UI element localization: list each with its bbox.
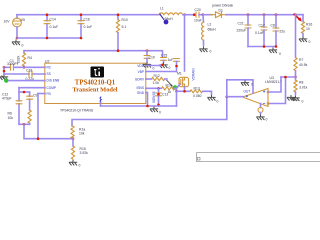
- svg-text:FB: FB: [47, 92, 51, 96]
- node: comp bottom: [23, 123, 26, 126]
- svg-text:C9: C9: [33, 94, 37, 98]
- capacitor C15: [161, 58, 167, 63]
- svg-text:TPS40210-QI TRANS: TPS40210-QI TRANS: [60, 109, 94, 113]
- svg-text:0: 0: [79, 164, 81, 168]
- voltage source V5: [13, 18, 22, 38]
- diode D1: [211, 12, 249, 18]
- node: M1 source: [183, 90, 186, 93]
- wire: comp left rail: [18, 88, 20, 125]
- ground under L2: [199, 47, 207, 53]
- svg-text:R4: R4: [28, 56, 32, 60]
- svg-text:1.0k: 1.0k: [153, 81, 160, 85]
- wire: DIS row: [9, 80, 45, 82]
- wire: Vout sense rail: [72, 97, 227, 126]
- node: V5 bottom junction: [16, 37, 19, 40]
- svg-text:0: 0: [159, 111, 161, 115]
- window frame corner bottom right: [197, 153, 320, 163]
- wire: comp mid rail: [29, 92, 31, 110]
- transistor M1: [179, 77, 189, 86]
- svg-text:V5: V5: [21, 18, 25, 22]
- wire: op-amp inverting feedback: [269, 77, 281, 92]
- ground at caps tie: [269, 48, 277, 54]
- resistor R10: [116, 15, 119, 50]
- svg-text:40.9k: 40.9k: [299, 63, 308, 67]
- node: feedback corner: [284, 76, 287, 79]
- svg-text:GDRV: GDRV: [135, 77, 145, 81]
- svg-text:3.92k: 3.92k: [80, 151, 89, 155]
- svg-text:DIS ENB: DIS ENB: [47, 79, 60, 83]
- capacitor C19: [144, 51, 150, 62]
- svg-text:0: 0: [251, 83, 253, 87]
- node: C17 top: [263, 13, 266, 16]
- capacitor C12 (series on left rail): [16, 101, 22, 104]
- node: VDD row corner: [161, 64, 164, 67]
- wire: left rail down to SS row: [3, 67, 5, 74]
- wire: source row: [177, 90, 191, 92]
- capacitor VBP C10: [174, 59, 180, 72]
- resistor R1a: [71, 126, 74, 139]
- wire: macro pin lead: [100, 103, 102, 106]
- ground at left rail: [0, 75, 8, 81]
- ground under V5: [12, 40, 20, 46]
- svg-text:10k: 10k: [8, 116, 14, 120]
- node: op-amp input: [226, 95, 229, 98]
- svg-text:VBP: VBP: [138, 70, 144, 74]
- wire: output caps bottom tie: [248, 46, 276, 48]
- resistor R7: [294, 15, 297, 77]
- wire: top rail left section: [17, 14, 159, 16]
- node: C13 bottom: [157, 104, 160, 107]
- capacitor C17: [261, 15, 267, 47]
- svg-text:5.1: 5.1: [122, 25, 127, 29]
- wire: rail C20 to D1: [203, 14, 212, 16]
- wire: M1 source down: [184, 87, 186, 92]
- svg-text:C17: C17: [259, 24, 265, 28]
- capacitor C16: [78, 15, 84, 38]
- svg-text:220uF: 220uF: [237, 29, 247, 33]
- ground under C19: [143, 62, 151, 68]
- node: R4 bottom on RC row: [23, 66, 26, 69]
- svg-text:ISNS: ISNS: [137, 86, 144, 90]
- svg-text:COMP: COMP: [47, 86, 57, 90]
- wire: comp to FB rail: [24, 124, 73, 138]
- node: C20 right / L2 top: [202, 13, 205, 16]
- svg-text:U3: U3: [270, 76, 274, 80]
- svg-text:C15: C15: [161, 54, 167, 58]
- red current arrow: [294, 14, 302, 22]
- wire: rail corner to load: [296, 15, 304, 22]
- node: Vout at R7: [294, 13, 297, 16]
- node: left rail junction: [3, 70, 6, 73]
- capacitor C21: [245, 15, 251, 47]
- node: C14 top: [46, 13, 49, 16]
- svg-text:0.060: 0.060: [193, 94, 202, 98]
- resistor R8: [294, 77, 297, 95]
- svg-text:SS: SS: [47, 72, 51, 76]
- svg-text:0: 0: [279, 52, 281, 56]
- svg-text:C21: C21: [238, 21, 244, 25]
- node: divider mid: [72, 137, 75, 140]
- wire: GND pin row: [146, 93, 148, 107]
- svg-text:0: 0: [217, 100, 219, 104]
- MOSFET M1 drain wire: [184, 15, 186, 71]
- resistor R12: [152, 77, 168, 80]
- resistor R15: [71, 139, 74, 160]
- wire: gate stub: [177, 84, 180, 88]
- node: sense node: [175, 90, 178, 93]
- svg-text:C19: C19: [149, 56, 155, 60]
- capacitor C1 (series on RC row): [4, 64, 14, 70]
- svg-text:0.1uF: 0.1uF: [50, 25, 59, 29]
- inductor L1: [159, 13, 183, 15]
- wire: output rail: [248, 14, 303, 16]
- wire: ground rail under IC: [101, 105, 177, 107]
- ground under C15: [159, 63, 167, 69]
- node: SW junction after L1: [183, 13, 186, 16]
- svg-text:C14: C14: [50, 18, 56, 22]
- node: C13 top junction: [157, 93, 160, 96]
- svg-text:OUT: OUT: [244, 90, 251, 94]
- svg-text:0: 0: [309, 40, 311, 44]
- TI logo: [91, 67, 105, 78]
- ground at R13: [207, 95, 215, 101]
- svg-text:10k: 10k: [79, 132, 85, 136]
- svg-text:0: 0: [169, 66, 171, 70]
- macro curly: [100, 97, 101, 103]
- svg-text:R7: R7: [299, 58, 303, 62]
- svg-text:10: 10: [306, 27, 310, 31]
- node: C20 left: [193, 13, 196, 16]
- capacitor C9: [27, 96, 33, 99]
- svg-text:GND: GND: [137, 91, 145, 95]
- wire: V5 top lead: [16, 15, 18, 18]
- svg-text:0: 0: [296, 98, 298, 102]
- svg-text:0: 0: [210, 50, 212, 54]
- node: ISNS filter: [157, 87, 160, 90]
- node: C19 top: [146, 49, 149, 52]
- wire: bottom rail of input caps: [17, 37, 81, 39]
- wire: COMP row: [19, 87, 45, 89]
- node: FB on divider rail: [37, 137, 40, 140]
- current probe arrow at L1: [160, 14, 169, 25]
- node: C16 bottom: [80, 37, 83, 40]
- svg-text:C20: C20: [195, 8, 201, 12]
- capacitor C13: [156, 88, 162, 106]
- svg-text:C13: C13: [162, 93, 168, 97]
- svg-text:D1: D1: [219, 8, 223, 12]
- node: C14 bottom: [46, 37, 49, 40]
- svg-text:0: 0: [302, 100, 304, 104]
- IC U2 box: [45, 63, 146, 103]
- svg-text:Transient Model: Transient Model: [72, 86, 117, 93]
- node: comp tie: [23, 91, 26, 94]
- wire: sense node down: [176, 91, 178, 106]
- ground top right: [287, 95, 295, 101]
- svg-text:L2: L2: [208, 22, 212, 26]
- voltage source V4: [258, 103, 263, 114]
- svg-text:R12: R12: [154, 74, 160, 78]
- wire: comp bottom tie: [19, 123, 30, 125]
- node: tie C8: [275, 45, 278, 48]
- ground under V4: [256, 115, 264, 121]
- svg-text:1uF: 1uF: [168, 58, 174, 62]
- svg-text:0: 0: [22, 44, 24, 48]
- resistor R6: [28, 110, 31, 124]
- wire: VDD rail y50: [24, 51, 163, 57]
- svg-text:R10: R10: [122, 18, 128, 22]
- svg-text:C16: C16: [84, 18, 90, 22]
- node: R10 bottom on VDD rail: [117, 49, 120, 52]
- resistor R13: [190, 90, 212, 95]
- svg-text:3.01k: 3.01k: [299, 85, 308, 89]
- svg-text:0: 0: [266, 118, 268, 122]
- capacitor C8: [273, 15, 279, 47]
- svg-text:U2: U2: [45, 59, 49, 63]
- svg-text:0.1uF: 0.1uF: [84, 25, 93, 29]
- node: divider tap: [294, 76, 297, 79]
- svg-text:68uH: 68uH: [208, 27, 217, 31]
- resistor R14: [162, 87, 177, 92]
- node: RC row left: [3, 66, 6, 69]
- wire: FB vertical: [37, 94, 39, 139]
- node: C8 top: [275, 13, 278, 16]
- ground on rail: [150, 107, 158, 113]
- capacitor C20 (series): [196, 12, 203, 17]
- wire: SS row: [4, 73, 45, 75]
- svg-text:M1: M1: [177, 72, 182, 76]
- svg-text:R13: R13: [194, 87, 200, 91]
- resistor R4: [22, 51, 25, 68]
- svg-text:VDRAIN: VDRAIN: [192, 68, 196, 81]
- inductor L2: [202, 15, 204, 46]
- wire: ISNS row: [146, 87, 162, 89]
- voltage arrow probe at DIS: [2, 76, 9, 83]
- node: R10 top: [117, 13, 120, 16]
- svg-text:RC: RC: [47, 66, 52, 70]
- node: tie C17: [263, 45, 266, 48]
- svg-text:470pF: 470pF: [2, 97, 12, 101]
- wire: RC row: [14, 66, 45, 68]
- gate probe arrow: [167, 80, 178, 90]
- capacitor C18 (series on SS row): [29, 71, 32, 77]
- node: GND pin on rail: [146, 105, 149, 108]
- node: VBP cap: [175, 65, 178, 68]
- svg-text:R14: R14: [166, 83, 172, 87]
- resistor R16 load: [301, 22, 304, 36]
- capacitor C14: [44, 15, 50, 38]
- wire: rail L1 to C20: [183, 14, 195, 16]
- svg-text:10uF: 10uF: [194, 19, 202, 23]
- svg-text:L1: L1: [160, 7, 164, 11]
- ground under R15: [69, 160, 77, 166]
- wire: tap to op-amp feedback: [269, 77, 296, 104]
- wire: FB row: [38, 93, 45, 95]
- wire: op-amp top supply: [227, 80, 253, 97]
- op-amp U3: [243, 89, 270, 107]
- svg-text:ISENSE: ISENSE: [152, 91, 156, 103]
- svg-text:0.1uF: 0.1uF: [255, 31, 264, 35]
- wire: comp top tie: [19, 91, 30, 93]
- wire: op-amp input from rail: [227, 96, 244, 98]
- ground under R8: [291, 96, 299, 102]
- svg-text:3300PF: 3300PF: [7, 62, 19, 66]
- node: C16 top: [80, 13, 83, 16]
- pin stubs U2: [44, 66, 46, 68]
- ground at op-amp supply: [241, 80, 249, 86]
- wire: VDD pin row: [146, 65, 163, 67]
- svg-text:power Dbreak: power Dbreak: [212, 3, 233, 7]
- wire: GDRV row: [146, 78, 152, 80]
- ground under R16: [299, 37, 307, 43]
- svg-text:22u: 22u: [280, 30, 286, 34]
- svg-text:10V: 10V: [4, 20, 11, 24]
- svg-text:C18: C18: [26, 68, 32, 72]
- wire: VBP row: [146, 71, 177, 73]
- svg-text:C8: C8: [271, 24, 275, 28]
- svg-text:R8: R8: [299, 81, 303, 85]
- node: C21 top: [247, 13, 250, 16]
- svg-text:0: 0: [153, 67, 155, 71]
